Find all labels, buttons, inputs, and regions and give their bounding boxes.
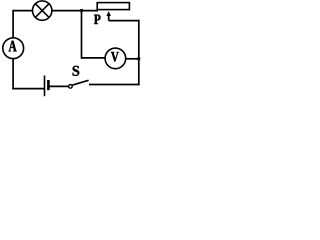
label P xyxy=(94,15,101,24)
switch S terminal circle xyxy=(69,85,73,89)
node junction dot on top wire xyxy=(80,9,83,12)
wire left vertical upper (top to ammeter) xyxy=(12,10,14,38)
wire lamp to rheostat xyxy=(52,10,98,12)
label A xyxy=(9,41,17,52)
wire battery to switch xyxy=(48,85,68,87)
battery long plate xyxy=(44,76,46,97)
wire right vertical xyxy=(138,20,140,86)
wire top-left horizontal segment xyxy=(13,10,32,12)
switch S lever xyxy=(72,80,89,85)
wire voltmeter to right node xyxy=(126,58,139,60)
ammeter A xyxy=(3,38,24,59)
rheostat P body xyxy=(97,3,129,10)
wire voltmeter branch horizontal xyxy=(81,57,105,59)
wire bottom left horizontal xyxy=(12,88,44,90)
node junction dot right side xyxy=(137,57,140,60)
wire bottom right horizontal xyxy=(89,84,140,86)
lamp L (circle with X) xyxy=(33,1,52,20)
battery short plate xyxy=(47,80,50,90)
label V xyxy=(111,52,119,62)
voltmeter V xyxy=(105,48,126,69)
label S xyxy=(73,66,80,76)
rheostat wiper arrow xyxy=(106,11,111,20)
wire wiper to right vertical xyxy=(109,20,139,22)
wire left vertical lower (ammeter to bottom) xyxy=(12,59,14,90)
wire voltmeter branch vertical xyxy=(81,11,83,59)
